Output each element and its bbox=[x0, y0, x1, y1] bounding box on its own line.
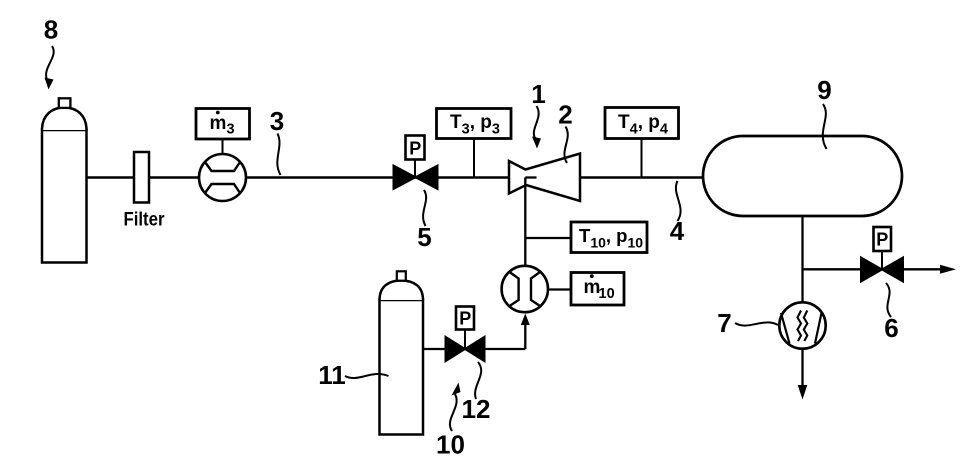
wire: cylinder 11 to valve 12 bbox=[423, 348, 446, 350]
label 11 with leader bbox=[318, 360, 388, 390]
svg-text:1: 1 bbox=[531, 79, 545, 109]
svg-text:11: 11 bbox=[318, 360, 346, 390]
turbine 2 (bowtie) bbox=[509, 154, 580, 202]
wire: flow meter m10 to box m10 bbox=[548, 288, 571, 290]
wire: branch to T10,p10 box bbox=[525, 237, 571, 239]
instrument box m10 bbox=[571, 273, 624, 306]
label 8 with leader arrow bbox=[44, 15, 58, 90]
instrument box T10,p10 bbox=[571, 222, 647, 253]
wire: stem P box to valve 5 bbox=[414, 160, 416, 178]
label 12 with leader bbox=[462, 362, 491, 424]
wire: stem P box to valve 12 bbox=[464, 330, 466, 350]
wire: stem flow meter m3 to box bbox=[222, 139, 224, 154]
wire: outlet arrow below heat exchanger 7 bbox=[798, 349, 808, 400]
svg-text:3: 3 bbox=[270, 106, 284, 136]
vessel 9 (capsule) bbox=[703, 136, 902, 216]
svg-text:2: 2 bbox=[558, 100, 572, 130]
valve 5 bbox=[394, 166, 438, 190]
svg-text:12: 12 bbox=[462, 394, 491, 424]
wire: valve 12 to flow meter m10 with up arrow bbox=[485, 314, 530, 350]
svg-text:9: 9 bbox=[817, 75, 831, 105]
valve 12 bbox=[446, 337, 485, 361]
pressure indicator P (valve 12) bbox=[456, 307, 474, 330]
svg-text:Filter: Filter bbox=[124, 210, 166, 231]
label 9 with leader bbox=[817, 75, 831, 149]
wire: stem T4,p4 box to main line bbox=[641, 139, 643, 178]
svg-text:P: P bbox=[876, 230, 888, 250]
label 2 with leader bbox=[558, 100, 572, 164]
svg-text:P: P bbox=[409, 139, 421, 159]
wire: turbine outlet down to flow meter m10 bbox=[525, 178, 536, 267]
wire: vessel 9 down to heat exchanger 7 bbox=[801, 216, 803, 303]
wire: main line from cylinder 8 to vessel 9 bbox=[86, 176, 703, 178]
svg-text:5: 5 bbox=[417, 222, 431, 252]
label 4 with leader bbox=[670, 181, 685, 246]
wire: stem P box to valve 6 bbox=[881, 251, 883, 269]
svg-text:7: 7 bbox=[717, 308, 731, 338]
label 1 with leader arrow bbox=[531, 79, 545, 149]
instrument box T3,p3 bbox=[437, 109, 512, 139]
svg-text:m: m bbox=[210, 113, 227, 134]
wire: stem T3,p3 box to main line bbox=[473, 139, 475, 178]
label 10 with leader arrow bbox=[436, 383, 465, 460]
label 3 with leader bbox=[270, 106, 284, 175]
instrument box T4,p4 bbox=[605, 108, 679, 139]
label 5 with leader bbox=[417, 190, 431, 252]
label 6 with leader bbox=[884, 283, 898, 343]
heat exchanger 7 bbox=[779, 302, 825, 348]
svg-text:4: 4 bbox=[670, 216, 685, 246]
svg-text:10: 10 bbox=[599, 286, 615, 302]
svg-text:3: 3 bbox=[227, 122, 235, 138]
pressure indicator P (valve 6) bbox=[874, 227, 892, 251]
svg-text:10: 10 bbox=[436, 430, 465, 460]
pressure indicator P (valve 5) bbox=[406, 136, 425, 160]
valve 6 bbox=[861, 258, 903, 282]
wire: outlet arrow right of valve 6 bbox=[903, 265, 956, 274]
gas cylinder 11 body bbox=[380, 271, 424, 434]
svg-text:6: 6 bbox=[884, 313, 898, 343]
flow meter m10 (circle with trapezoids, vertical) bbox=[502, 266, 548, 312]
svg-text:8: 8 bbox=[44, 15, 58, 45]
instrument box m3 bbox=[196, 109, 250, 140]
gas cylinder 8 body bbox=[42, 98, 87, 262]
filter bbox=[124, 152, 166, 231]
svg-text:P: P bbox=[459, 309, 471, 329]
label 7 with leader bbox=[717, 308, 778, 338]
wire: branch to valve 6 bbox=[803, 268, 862, 270]
flow meter m3 (circle with trapezoids) bbox=[199, 154, 246, 201]
